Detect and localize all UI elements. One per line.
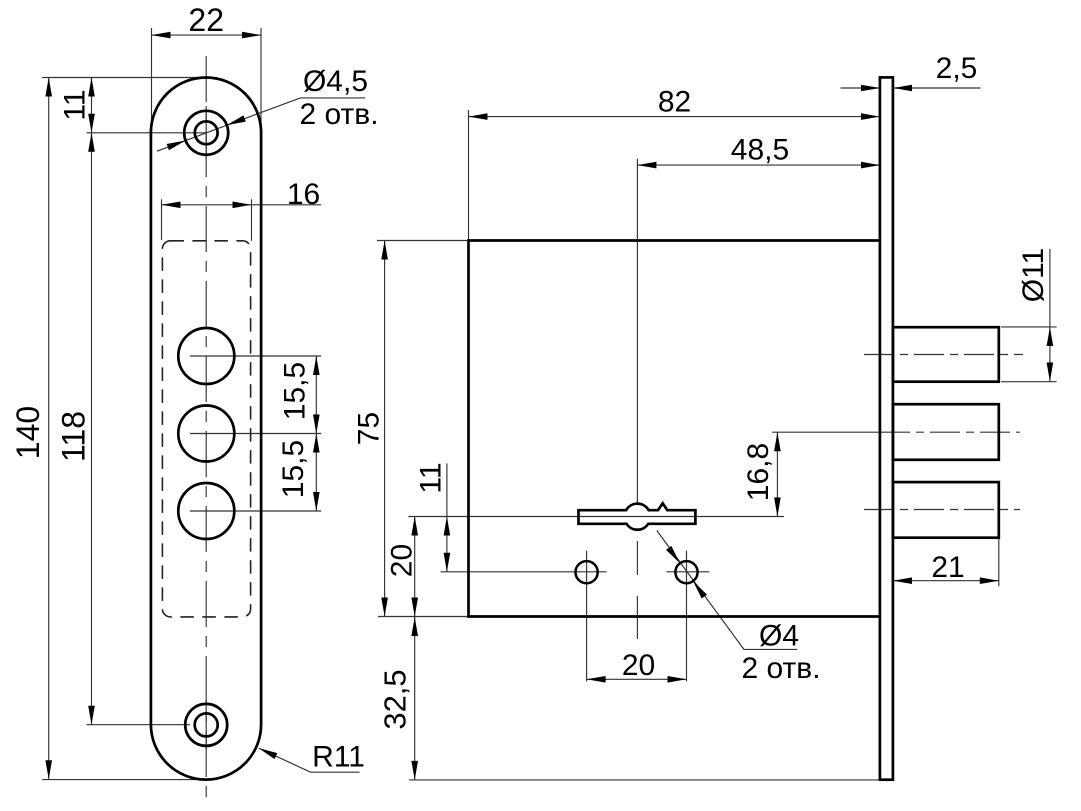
svg-text:75: 75 — [353, 412, 386, 445]
svg-text:140: 140 — [10, 406, 46, 459]
svg-text:Ø4: Ø4 — [759, 620, 799, 653]
svg-text:2 отв.: 2 отв. — [741, 652, 820, 685]
svg-text:15,5: 15,5 — [277, 440, 310, 498]
svg-text:15,5: 15,5 — [279, 362, 312, 420]
svg-text:20: 20 — [386, 544, 419, 577]
svg-text:2 отв.: 2 отв. — [299, 98, 378, 131]
svg-text:Ø11: Ø11 — [1017, 248, 1050, 302]
svg-text:82: 82 — [658, 86, 691, 119]
svg-text:R11: R11 — [312, 741, 365, 774]
svg-text:21: 21 — [931, 551, 964, 584]
svg-text:20: 20 — [622, 649, 655, 682]
svg-text:16: 16 — [287, 178, 320, 211]
svg-text:16,8: 16,8 — [742, 443, 775, 501]
svg-text:22: 22 — [188, 2, 224, 38]
svg-text:32,5: 32,5 — [378, 669, 413, 729]
svg-text:11: 11 — [59, 89, 92, 120]
svg-text:2,5: 2,5 — [936, 52, 978, 85]
svg-text:118: 118 — [56, 411, 92, 462]
svg-text:11: 11 — [415, 462, 448, 493]
svg-text:Ø4,5: Ø4,5 — [303, 65, 368, 98]
svg-text:48,5: 48,5 — [731, 134, 789, 167]
